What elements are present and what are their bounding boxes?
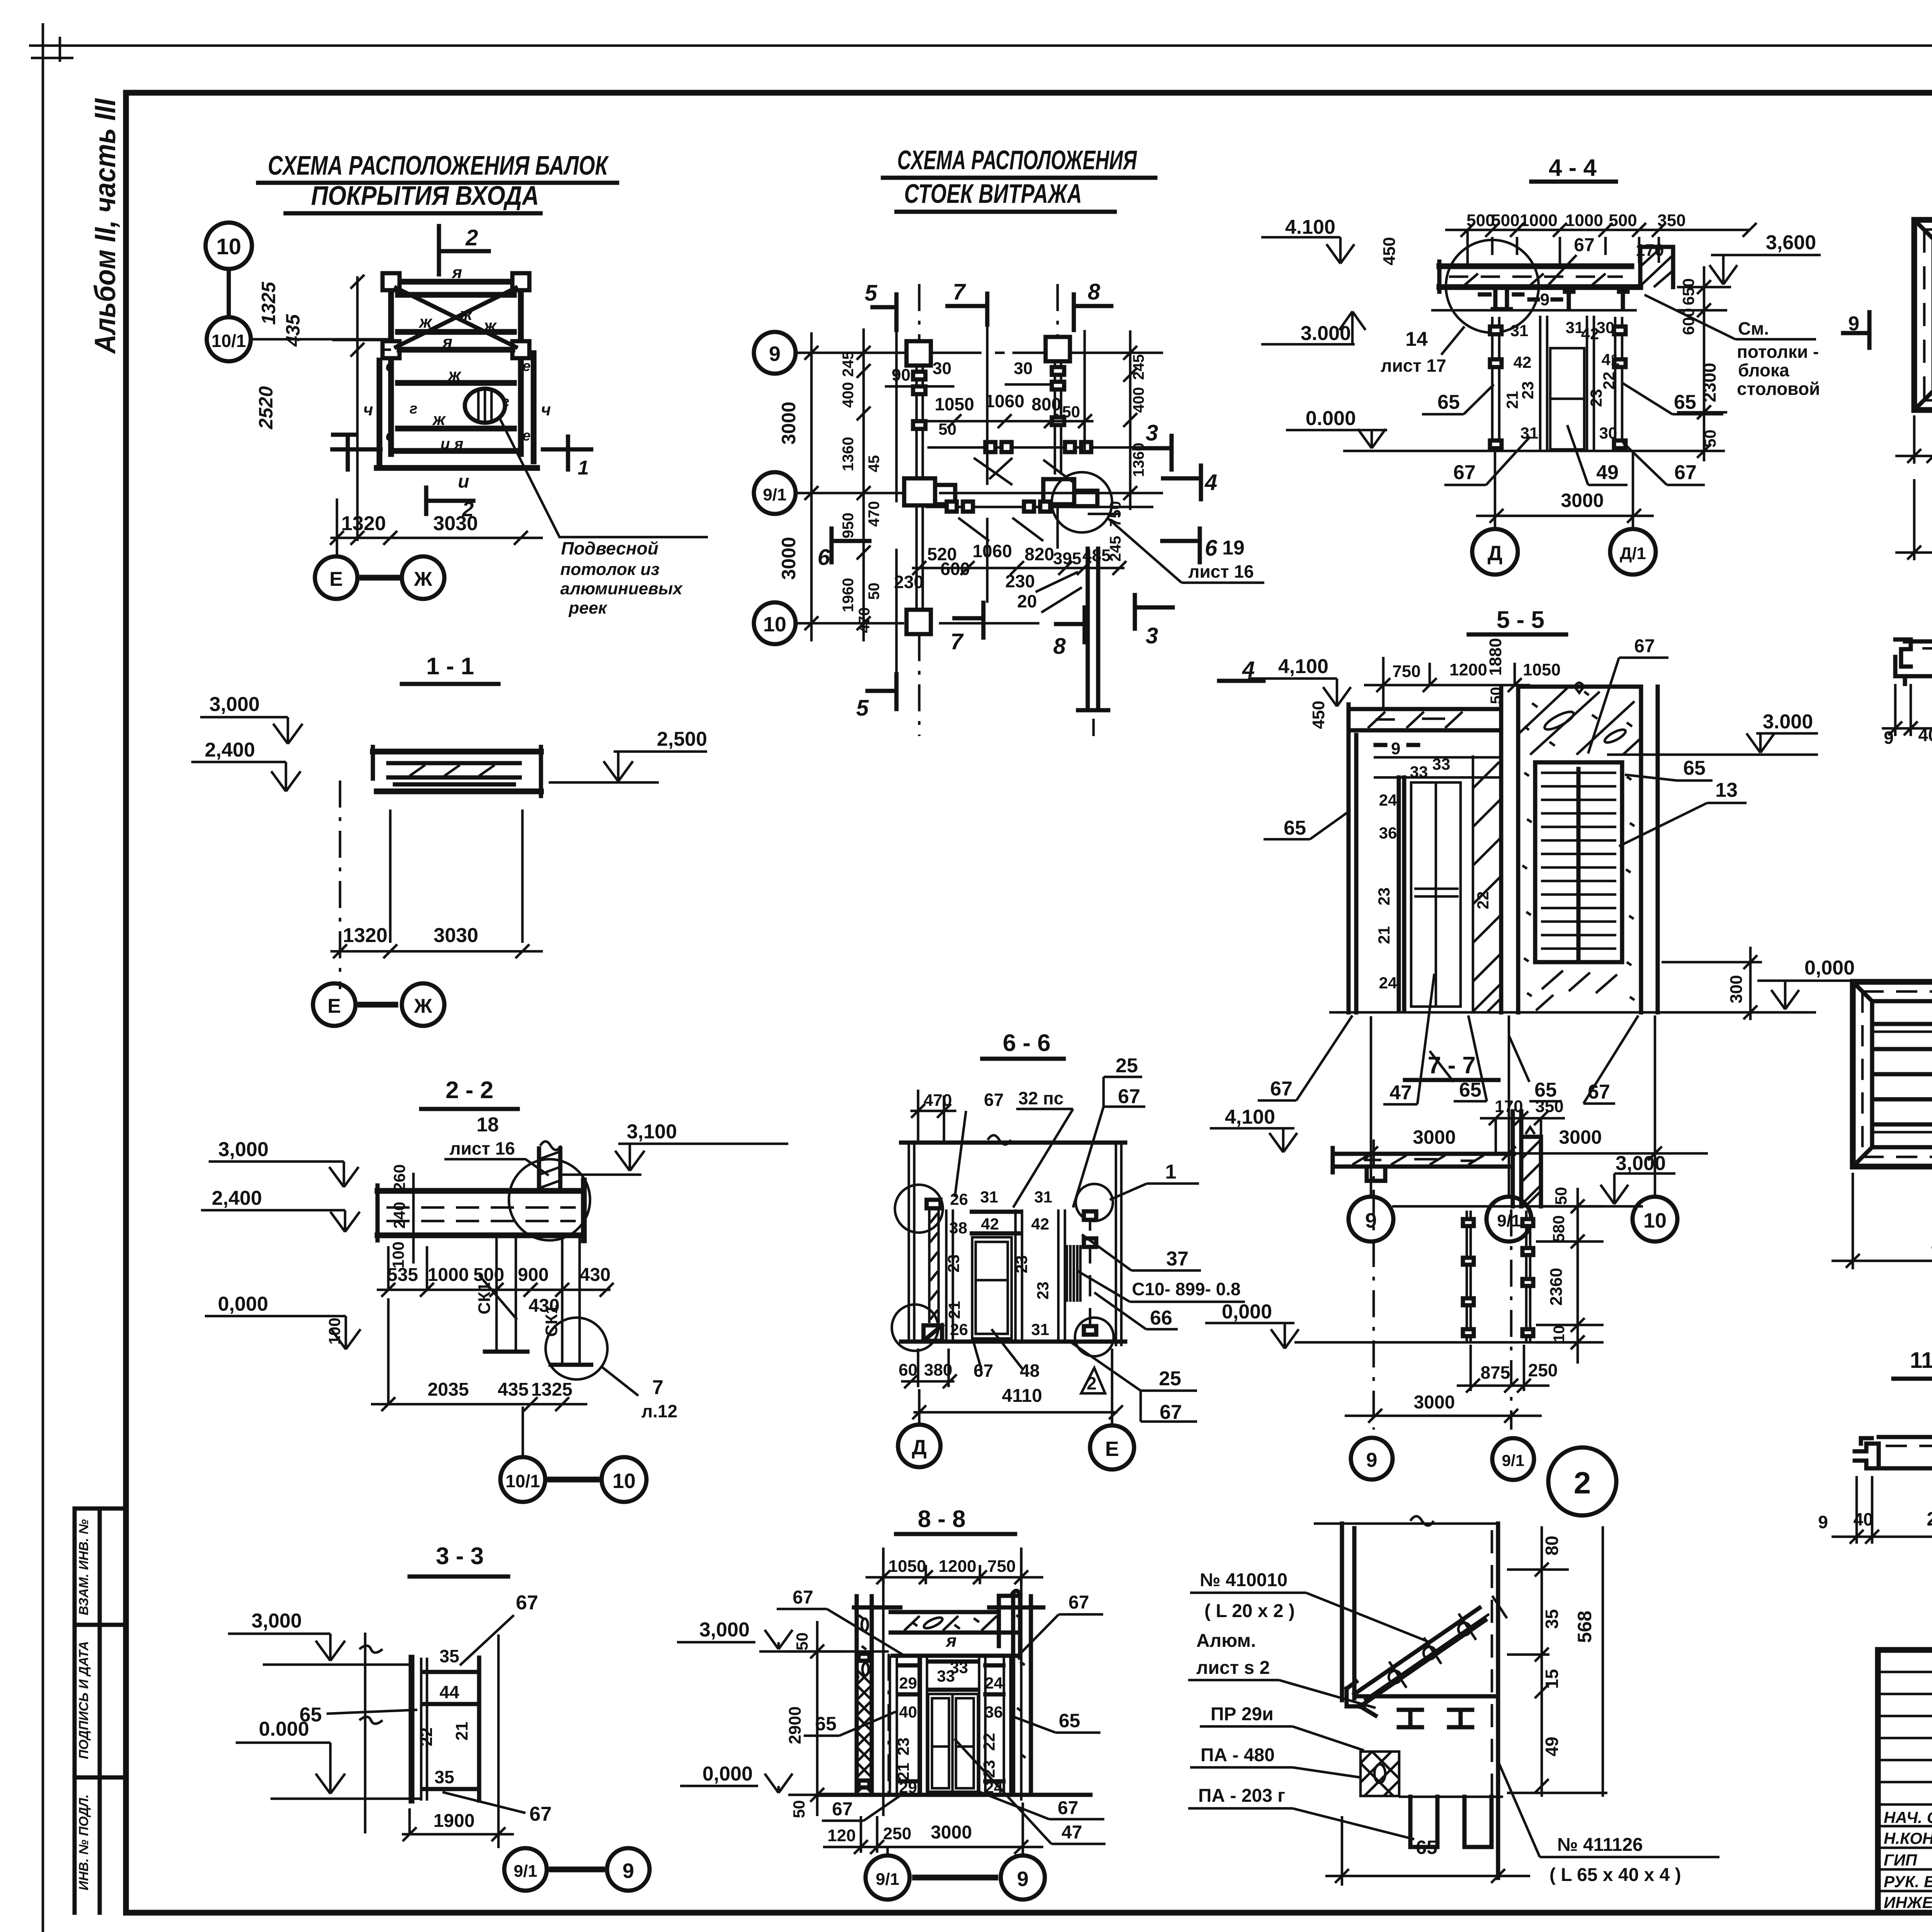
svg-text:430: 430 xyxy=(580,1265,611,1285)
posts below xyxy=(497,1235,580,1365)
svg-text:9: 9 xyxy=(1366,1449,1378,1471)
bar xyxy=(1879,1437,1932,1468)
svg-text:Ж: Ж xyxy=(414,995,433,1017)
bottom dim xyxy=(402,1808,514,1841)
svg-text:26: 26 xyxy=(950,1320,968,1338)
axis circle 9 xyxy=(754,332,796,374)
svg-text:2900: 2900 xyxy=(786,1706,804,1744)
svg-text:10/1: 10/1 xyxy=(211,331,246,351)
main posts xyxy=(1501,687,1518,1012)
svg-text:л.12: л.12 xyxy=(641,1401,677,1421)
svg-text:48: 48 xyxy=(1020,1361,1039,1381)
svg-text:600: 600 xyxy=(940,559,970,579)
svg-text:1: 1 xyxy=(1165,1161,1177,1183)
svg-text:67: 67 xyxy=(1453,461,1476,484)
section mark 1 left xyxy=(332,435,381,469)
svg-text:65: 65 xyxy=(1674,391,1696,413)
mid dim string xyxy=(912,561,1126,575)
svg-text:14: 14 xyxy=(1405,328,1428,350)
svg-text:67: 67 xyxy=(793,1587,813,1608)
svg-text:лист 16: лист 16 xyxy=(1188,561,1254,582)
svg-text:23: 23 xyxy=(894,1738,912,1756)
svg-text:67: 67 xyxy=(1068,1592,1089,1613)
svg-text:4110: 4110 xyxy=(1002,1386,1042,1406)
double door leaf xyxy=(928,1694,978,1792)
svg-text:СХЕМА РАСПОЛОЖЕНИЯ: СХЕМА РАСПОЛОЖЕНИЯ xyxy=(897,145,1137,175)
svg-text:23: 23 xyxy=(1587,389,1605,407)
svg-text:2: 2 xyxy=(465,225,478,250)
svg-text:Альбом II, часть III: Альбом II, часть III xyxy=(89,98,122,354)
left dim chain xyxy=(332,275,391,545)
svg-text:блока: блока xyxy=(1738,360,1789,380)
svg-text:столовой: столовой xyxy=(1737,379,1820,399)
left panel xyxy=(890,1656,897,1794)
svg-text:( L 20 х 2 ): ( L 20 х 2 ) xyxy=(1204,1601,1295,1621)
axis circle 9/1 xyxy=(754,472,796,514)
svg-text:3,000: 3,000 xyxy=(1616,1152,1666,1175)
svg-text:алюминиевых: алюминиевых xyxy=(560,579,683,598)
svg-text:3000: 3000 xyxy=(1561,490,1604,511)
svg-text:4 - 4: 4 - 4 xyxy=(1549,155,1597,181)
bottom dims xyxy=(1895,396,1932,464)
svg-text:35: 35 xyxy=(439,1646,459,1666)
svg-text:3,000: 3,000 xyxy=(252,1610,302,1632)
frame verticals xyxy=(1342,1524,1354,1700)
svg-text:600: 600 xyxy=(1679,308,1697,335)
svg-text:4.100: 4.100 xyxy=(1285,216,1335,238)
svg-text:67: 67 xyxy=(1634,636,1655,656)
striped infill xyxy=(1067,1245,1080,1302)
svg-text:3.000: 3.000 xyxy=(1763,711,1813,733)
bottom of blade bracket xyxy=(1360,1706,1376,1716)
svg-text:23: 23 xyxy=(1519,381,1537,400)
lintel glass band xyxy=(854,1607,1043,1633)
section plane verticals xyxy=(896,325,1085,674)
svg-text:250: 250 xyxy=(1528,1360,1558,1380)
svg-text:10: 10 xyxy=(216,234,241,259)
section mark 1 right xyxy=(543,437,591,469)
svg-text:1320: 1320 xyxy=(341,512,386,535)
svg-text:1360: 1360 xyxy=(840,437,857,471)
svg-text:1000: 1000 xyxy=(428,1265,469,1285)
svg-text:260: 260 xyxy=(390,1164,408,1191)
svg-text:18: 18 xyxy=(476,1114,499,1136)
svg-text:33: 33 xyxy=(1410,763,1428,781)
svg-text:50: 50 xyxy=(793,1633,811,1651)
svg-text:ч: ч xyxy=(541,400,551,419)
svg-text:41: 41 xyxy=(1602,350,1620,369)
axis circles xyxy=(866,1855,910,1900)
svg-text:6: 6 xyxy=(1205,536,1218,561)
svg-text:( L 65 х 40 х 4 ): ( L 65 х 40 х 4 ) xyxy=(1549,1865,1681,1885)
svg-text:1325: 1325 xyxy=(258,281,279,325)
dim line xyxy=(1882,684,1932,736)
svg-text:47: 47 xyxy=(1061,1822,1082,1843)
left margin rotated text: Альбом II, часть III xyxy=(89,98,122,354)
svg-text:3000: 3000 xyxy=(1414,1392,1455,1413)
ceiling line under beam xyxy=(1431,309,1637,312)
svg-text:22: 22 xyxy=(1474,891,1492,910)
svg-text:2: 2 xyxy=(1574,1466,1591,1500)
svg-text:Д: Д xyxy=(912,1436,927,1459)
svg-text:580: 580 xyxy=(1549,1215,1568,1242)
svg-text:245: 245 xyxy=(840,351,857,377)
svg-text:1050: 1050 xyxy=(935,394,974,414)
svg-text:450: 450 xyxy=(1380,237,1399,265)
dim chain small left xyxy=(857,328,871,641)
axis lines xyxy=(796,353,1163,623)
svg-text:1000: 1000 xyxy=(1565,211,1603,230)
svg-text:4,100: 4,100 xyxy=(1225,1106,1275,1128)
svg-text:8: 8 xyxy=(1088,279,1100,304)
left mullion column xyxy=(906,341,931,366)
svg-text:67: 67 xyxy=(1058,1798,1078,1818)
side rails xyxy=(377,353,537,468)
svg-text:535: 535 xyxy=(387,1265,418,1285)
svg-text:67: 67 xyxy=(973,1361,993,1381)
svg-text:9: 9 xyxy=(1818,1512,1828,1532)
svg-text:0,000: 0,000 xyxy=(1804,957,1855,979)
axis circles xyxy=(504,1848,547,1891)
svg-text:875: 875 xyxy=(1481,1362,1510,1383)
svg-text:270: 270 xyxy=(1927,1508,1932,1530)
svg-text:лист s 2: лист s 2 xyxy=(1196,1658,1270,1678)
svg-text:820: 820 xyxy=(1025,544,1054,564)
svg-text:С10- 899- 0.8: С10- 899- 0.8 xyxy=(1132,1279,1240,1299)
svg-text:24: 24 xyxy=(1379,974,1397,992)
svg-text:9/1: 9/1 xyxy=(514,1862,537,1881)
svg-text:Е: Е xyxy=(328,995,341,1017)
svg-text:10: 10 xyxy=(1643,1209,1667,1232)
svg-text:25: 25 xyxy=(1116,1054,1138,1077)
axis circles xyxy=(1472,529,1518,575)
svg-text:СК1: СК1 xyxy=(475,1282,494,1314)
dashed inner xyxy=(1924,230,1932,400)
svg-text:9: 9 xyxy=(1365,1209,1377,1232)
section marks xyxy=(872,294,896,330)
svg-text:Ж: Ж xyxy=(414,568,433,590)
svg-text:30: 30 xyxy=(933,359,952,378)
ground line xyxy=(820,1793,1090,1797)
svg-text:4,100: 4,100 xyxy=(1278,655,1328,678)
dim chain 3000/3000 xyxy=(804,332,818,641)
svg-text:ж: ж xyxy=(432,410,446,429)
svg-text:г: г xyxy=(410,401,417,417)
svg-text:350: 350 xyxy=(1657,211,1685,230)
svg-text:49: 49 xyxy=(1542,1736,1562,1756)
svg-text:42: 42 xyxy=(981,1215,999,1233)
section mark 2 (top) xyxy=(439,226,489,274)
svg-text:потолок из: потолок из xyxy=(560,560,660,579)
svg-text:47: 47 xyxy=(1389,1082,1412,1104)
svg-text:Подвесной: Подвесной xyxy=(561,538,658,558)
svg-text:1200: 1200 xyxy=(939,1557,976,1576)
outer frame with mitred corners xyxy=(1914,220,1932,410)
svg-text:50: 50 xyxy=(1062,403,1080,421)
svg-text:22: 22 xyxy=(980,1733,998,1751)
svg-text:Н.КОНТР.: Н.КОНТР. xyxy=(1884,1829,1932,1847)
svg-text:е: е xyxy=(386,428,394,444)
vertical dim line with break xyxy=(359,1633,383,1833)
svg-text:1060: 1060 xyxy=(985,391,1024,411)
svg-text:ж: ж xyxy=(483,316,497,335)
svg-text:230: 230 xyxy=(894,572,924,592)
axis circle 10/1 xyxy=(207,317,251,361)
svg-text:11 - 11: 11 - 11 xyxy=(1910,1348,1932,1373)
svg-text:Алюм.: Алюм. xyxy=(1196,1631,1256,1651)
svg-text:10/1: 10/1 xyxy=(505,1471,540,1491)
detail circle right xyxy=(546,1318,607,1379)
svg-text:ПА - 480: ПА - 480 xyxy=(1201,1745,1275,1765)
glass beam band left xyxy=(1349,704,1501,735)
svg-text:9/1: 9/1 xyxy=(1502,1451,1524,1469)
axis circles xyxy=(313,983,355,1026)
svg-text:2: 2 xyxy=(1087,1373,1097,1393)
left end fittings xyxy=(1895,639,1911,684)
svg-text:49: 49 xyxy=(1596,461,1619,484)
svg-text:ПА - 203 г: ПА - 203 г xyxy=(1198,1786,1285,1806)
svg-text:2: 2 xyxy=(462,498,474,521)
svg-text:395: 395 xyxy=(1053,549,1081,568)
svg-text:4: 4 xyxy=(1204,470,1217,495)
svg-text:13: 13 xyxy=(1715,779,1738,801)
svg-text:67: 67 xyxy=(1574,235,1594,255)
axis circle 10 xyxy=(754,602,796,644)
svg-text:67: 67 xyxy=(832,1799,852,1820)
beam xyxy=(1439,266,1640,287)
svg-text:№ 410010: № 410010 xyxy=(1200,1570,1287,1590)
dim line xyxy=(330,944,543,958)
right mullion column xyxy=(1046,337,1070,361)
sill hatch under louver xyxy=(1536,971,1617,1010)
leader to callout xyxy=(499,417,708,537)
section mark 2 bottom xyxy=(426,488,473,514)
svg-text:е: е xyxy=(522,428,531,444)
svg-text:0,000: 0,000 xyxy=(218,1293,268,1315)
svg-text:7: 7 xyxy=(951,629,964,654)
svg-text:25: 25 xyxy=(1159,1367,1181,1390)
svg-text:и: и xyxy=(458,471,469,492)
column above with hatch xyxy=(539,1148,560,1191)
suspended ceiling symbol xyxy=(465,389,505,423)
svg-text:40: 40 xyxy=(1853,1509,1873,1529)
svg-text:5: 5 xyxy=(856,696,869,721)
right frame xyxy=(1116,1143,1121,1346)
dim chain small right xyxy=(1123,330,1137,510)
svg-text:я: я xyxy=(442,333,452,352)
X bracing xyxy=(396,288,516,347)
svg-text:ПОКРЫТИЯ ВХОДА: ПОКРЫТИЯ ВХОДА xyxy=(311,180,539,211)
svg-text:500: 500 xyxy=(1491,211,1519,230)
svg-text:40: 40 xyxy=(899,1703,917,1721)
svg-text:250: 250 xyxy=(883,1824,911,1843)
svg-text:20: 20 xyxy=(1017,591,1037,611)
lower assembly xyxy=(1354,1694,1498,1699)
right dim chain xyxy=(1536,1188,1604,1364)
svg-text:65: 65 xyxy=(299,1704,322,1726)
bottom dims xyxy=(330,498,543,556)
axis circle Е xyxy=(315,556,357,599)
big detail circle xyxy=(1446,240,1539,333)
svg-text:3,100: 3,100 xyxy=(627,1121,677,1143)
mid dims xyxy=(377,1246,614,1297)
door frame xyxy=(921,1656,985,1794)
svg-text:См.: См. xyxy=(1738,318,1769,338)
svg-text:1960: 1960 xyxy=(840,578,857,612)
svg-text:800: 800 xyxy=(1032,394,1061,414)
svg-text:67: 67 xyxy=(1674,461,1697,484)
right concrete strip xyxy=(1013,1596,1031,1794)
svg-text:65: 65 xyxy=(1459,1079,1481,1101)
svg-text:1050: 1050 xyxy=(1523,660,1561,679)
mid post xyxy=(1058,1209,1065,1342)
svg-text:10: 10 xyxy=(1551,1325,1568,1343)
svg-text:500: 500 xyxy=(1609,211,1637,230)
svg-text:ИНВ. № ПОДЛ.: ИНВ. № ПОДЛ. xyxy=(77,1794,91,1891)
svg-text:РУК. БР.: РУК. БР. xyxy=(1884,1872,1932,1891)
top line with break xyxy=(1314,1516,1498,1526)
svg-text:65: 65 xyxy=(1437,391,1460,413)
long bar xyxy=(1905,641,1932,676)
svg-text:2,400: 2,400 xyxy=(205,739,255,761)
svg-text:40: 40 xyxy=(1918,725,1932,745)
svg-text:3000: 3000 xyxy=(778,537,799,580)
svg-text:24: 24 xyxy=(985,1674,1003,1692)
svg-text:50: 50 xyxy=(790,1800,808,1818)
svg-text:1325: 1325 xyxy=(531,1379,573,1400)
left elevation part xyxy=(1349,735,1356,1012)
svg-text:3000: 3000 xyxy=(931,1822,972,1843)
plan frame posts xyxy=(391,282,521,454)
svg-text:750: 750 xyxy=(987,1557,1015,1576)
svg-text:7: 7 xyxy=(953,279,966,304)
svg-text:1320: 1320 xyxy=(343,924,388,947)
svg-text:300: 300 xyxy=(1727,975,1746,1003)
svg-text:170: 170 xyxy=(1495,1097,1523,1116)
svg-text:1 - 1: 1 - 1 xyxy=(426,653,474,680)
axis circle 10 xyxy=(206,223,252,269)
svg-text:36: 36 xyxy=(985,1703,1003,1721)
frame xyxy=(1853,982,1932,1167)
svg-text:№ 411126: № 411126 xyxy=(1557,1835,1643,1855)
corner brackets xyxy=(383,273,400,290)
svg-text:ч: ч xyxy=(363,400,373,419)
ground line xyxy=(1329,1011,1816,1014)
right top corner post xyxy=(999,1591,1020,1658)
svg-text:1000: 1000 xyxy=(1520,211,1558,230)
dim line xyxy=(1832,1476,1932,1544)
svg-text:38: 38 xyxy=(949,1219,968,1237)
svg-text:3,600: 3,600 xyxy=(1766,231,1816,254)
svg-text:21: 21 xyxy=(452,1722,471,1741)
svg-text:Д: Д xyxy=(1488,542,1502,565)
svg-text:230: 230 xyxy=(1005,571,1035,591)
door assembly xyxy=(946,1209,953,1342)
svg-text:ПР 29и: ПР 29и xyxy=(1211,1704,1274,1725)
svg-text:400: 400 xyxy=(1130,387,1147,413)
svg-text:9/1: 9/1 xyxy=(876,1870,899,1889)
left bottom margin tables xyxy=(75,1509,126,1913)
svg-text:42: 42 xyxy=(1031,1215,1049,1233)
svg-text:9: 9 xyxy=(1884,728,1894,748)
svg-text:ИНЖЕНЕР: ИНЖЕНЕР xyxy=(1884,1893,1932,1912)
svg-text:400: 400 xyxy=(840,382,857,408)
svg-text:950: 950 xyxy=(840,513,857,539)
svg-text:3000: 3000 xyxy=(778,401,799,444)
svg-text:9/1: 9/1 xyxy=(1497,1211,1520,1230)
posts below xyxy=(1467,1211,1530,1342)
right dims xyxy=(1507,1526,1607,1797)
svg-text:3000: 3000 xyxy=(1559,1126,1602,1148)
bottom dim 450 xyxy=(1832,1173,1932,1269)
svg-text:350: 350 xyxy=(1535,1097,1563,1116)
bottom line xyxy=(901,1340,1125,1344)
svg-text:9: 9 xyxy=(1017,1867,1029,1891)
svg-text:ГИП: ГИП xyxy=(1884,1851,1917,1869)
horizontal members xyxy=(925,447,1171,507)
left concrete strip + crosshatch pier xyxy=(857,1596,872,1794)
svg-text:и я: и я xyxy=(440,435,463,452)
louver grille xyxy=(1535,762,1622,962)
svg-text:1880: 1880 xyxy=(1486,638,1505,676)
svg-text:1050: 1050 xyxy=(888,1557,926,1576)
witness lines xyxy=(390,810,522,943)
svg-text:45: 45 xyxy=(866,455,883,473)
svg-text:НАЧ. ОТД.: НАЧ. ОТД. xyxy=(1884,1808,1932,1827)
right posts xyxy=(1641,687,1658,1012)
dim 3000 3000 xyxy=(1333,1015,1708,1197)
louver blade xyxy=(1347,1608,1485,1706)
svg-text:500: 500 xyxy=(473,1265,504,1285)
svg-text:2360: 2360 xyxy=(1547,1268,1566,1306)
svg-text:450: 450 xyxy=(1309,701,1328,729)
svg-text:1060: 1060 xyxy=(973,541,1012,561)
svg-text:67: 67 xyxy=(1270,1078,1293,1100)
svg-text:29: 29 xyxy=(899,1674,917,1692)
svg-text:65: 65 xyxy=(1683,757,1706,779)
structure xyxy=(409,1658,415,1801)
bottom dims xyxy=(371,1298,587,1411)
beam profile xyxy=(373,752,541,791)
svg-text:23: 23 xyxy=(1034,1282,1052,1300)
svg-text:36: 36 xyxy=(1379,824,1397,842)
right post with dash axis xyxy=(1089,1209,1092,1342)
svg-text:2,400: 2,400 xyxy=(212,1187,262,1209)
svg-text:10: 10 xyxy=(612,1469,636,1493)
crosshatch block xyxy=(1361,1752,1399,1796)
svg-text:9: 9 xyxy=(1540,290,1549,309)
svg-text:435: 435 xyxy=(282,314,304,347)
svg-text:240: 240 xyxy=(390,1202,408,1229)
svg-text:3: 3 xyxy=(1146,623,1158,648)
axis circle Ж xyxy=(402,556,444,599)
svg-text:23: 23 xyxy=(1375,888,1393,906)
svg-text:0.000: 0.000 xyxy=(1306,407,1356,430)
svg-text:67: 67 xyxy=(1160,1401,1182,1423)
svg-text:21: 21 xyxy=(1375,926,1393,944)
svg-text:2 - 2: 2 - 2 xyxy=(446,1077,493,1104)
top line with break xyxy=(901,1141,1125,1145)
svg-text:9: 9 xyxy=(769,342,781,366)
svg-text:33: 33 xyxy=(1432,755,1451,773)
svg-text:30: 30 xyxy=(1597,318,1615,337)
svg-text:67: 67 xyxy=(529,1803,552,1825)
svg-text:245: 245 xyxy=(1130,354,1147,380)
axis circles xyxy=(1351,1438,1393,1480)
svg-text:35: 35 xyxy=(434,1767,454,1787)
svg-text:е: е xyxy=(386,358,394,374)
svg-text:23: 23 xyxy=(944,1255,963,1273)
